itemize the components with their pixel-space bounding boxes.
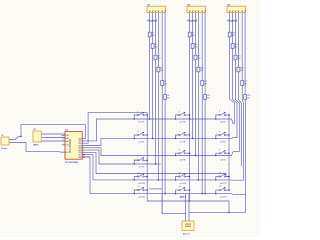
wire DS3 pin1 vertical: [230, 13, 235, 124]
junction S9 column line: [228, 152, 230, 154]
push button S1: [137, 111, 144, 123]
wire IC pin to keypad row 1: [86, 119, 232, 141]
junction S14 column line: [189, 189, 191, 191]
junction DS1 wire2: [152, 138, 154, 140]
junction S3 column line: [228, 114, 230, 116]
junction DS1 wire4: [158, 179, 160, 181]
push button S13: [137, 186, 145, 198]
junction S6 column line: [228, 134, 230, 136]
junction col2 chain: [189, 200, 191, 202]
junction S11 row line: [175, 179, 177, 181]
wire S3 left stub: [216, 115, 219, 119]
svg-text:330: 330: [198, 58, 201, 60]
push button S15: [219, 186, 227, 198]
svg-text:sw11TB: sw11TB: [179, 183, 186, 185]
svg-text:PIC16F628A: PIC16F628A: [69, 138, 72, 152]
junction DS1 wire1: [149, 118, 151, 120]
junction S6 row line: [215, 138, 217, 140]
wire S8 right stub: [185, 152, 189, 154]
junction node A: [20, 136, 22, 138]
svg-text:PIC16F628A: PIC16F628A: [65, 161, 78, 164]
svg-text:Display3: Display3: [227, 19, 238, 22]
junction S13 row line: [133, 193, 135, 195]
wire J1 bottom pin: [9, 143, 65, 153]
svg-text:1: 1: [137, 111, 138, 113]
resistor R8: [191, 44, 198, 49]
junction S9 row line: [215, 155, 217, 157]
push button S3: [219, 111, 226, 123]
svg-text:330: 330: [155, 46, 158, 48]
wire col3 junction to bus: [228, 201, 230, 212]
wire S13 left stub: [134, 190, 137, 194]
wire S6 left stub: [216, 135, 219, 138]
junction S10 column line: [146, 176, 148, 178]
wire S14 left stub: [176, 190, 179, 194]
svg-text:sw10TB: sw10TB: [138, 183, 146, 185]
svg-text:12: 12: [83, 151, 85, 153]
wire DS1 pin6 vertical: [164, 13, 166, 194]
junction S10 row line: [133, 179, 135, 181]
wire col2 drop to chain: [189, 190, 191, 201]
wire node A up-over to U1 right pin1: [21, 124, 85, 138]
svg-text:330: 330: [244, 83, 247, 85]
wire X1 pin3 to U1: [41, 140, 65, 142]
junction S4 column line: [146, 134, 148, 136]
resistor R16: [237, 67, 244, 72]
wire row2 jog to DS3 wire: [232, 137, 238, 140]
wire IC pin to keypad row 4: [86, 155, 232, 180]
svg-text:sw9TB: sw9TB: [220, 160, 227, 162]
wire S4 right stub: [144, 134, 147, 136]
resistor R14: [231, 44, 238, 49]
resistor R4: [157, 67, 164, 72]
wire S1 left stub: [134, 115, 137, 119]
svg-text:13: 13: [137, 186, 139, 188]
svg-text:330: 330: [164, 83, 167, 85]
wire S7 right stub: [144, 159, 147, 161]
svg-text:330: 330: [152, 35, 155, 37]
svg-text:2: 2: [63, 137, 64, 139]
push button S11: [179, 173, 187, 185]
junction S5 column line: [189, 134, 191, 136]
wire IC pin to keypad row 3: [86, 150, 161, 164]
resistor R11: [201, 81, 208, 86]
wire IC pin to keypad row 5: [86, 157, 232, 194]
junction S11 column line: [189, 176, 191, 178]
wire DS1 pin3 vertical: [155, 13, 157, 164]
wire S2 left stub: [176, 115, 179, 119]
wire DS2 pin4 vertical: [197, 13, 199, 180]
push button S2: [179, 111, 186, 123]
wire buzzer left pin up: [185, 194, 187, 214]
svg-text:330: 330: [238, 58, 241, 60]
svg-text:3: 3: [219, 111, 220, 113]
svg-text:11: 11: [179, 173, 181, 175]
junction S7 column line: [146, 160, 148, 162]
junction S5 row line: [175, 138, 177, 140]
svg-text:7: 7: [137, 156, 138, 158]
junction S7 row line: [133, 163, 135, 165]
wire S3 right stub: [226, 114, 229, 116]
wire S10 right stub: [144, 176, 147, 178]
svg-text:Power: Power: [1, 147, 7, 150]
wire S11 left stub: [176, 177, 179, 180]
junction S8 row line: [175, 155, 177, 157]
wire S12 left stub: [216, 177, 219, 180]
wire DS2 pin2 vertical: [192, 13, 194, 139]
wire S5 right stub: [185, 134, 189, 136]
push button S6: [219, 131, 226, 143]
svg-text:RB8: RB8: [78, 157, 81, 159]
wire keypad column 1 vertical: [146, 113, 148, 190]
svg-text:4: 4: [137, 131, 138, 133]
junction DS2 wire3: [195, 155, 197, 157]
wire DS3 pin6 vertical: [244, 13, 247, 195]
resistor R12: [204, 95, 211, 100]
svg-text:1: 1: [63, 134, 64, 136]
svg-text:10: 10: [137, 173, 139, 175]
wire S12 right stub: [226, 176, 229, 178]
wire DS3 pin4 vertical: [238, 13, 241, 166]
svg-text:330: 330: [235, 46, 238, 48]
wire IC pin to keypad column 3: [86, 152, 229, 176]
wire S9 left stub: [216, 153, 219, 155]
svg-text:2: 2: [179, 111, 180, 113]
label U1 red pin marks: [83, 154, 85, 158]
wire row1 jog to DS3 wire: [232, 119, 235, 123]
svg-text:sw13TB: sw13TB: [138, 197, 146, 199]
svg-text:10: 10: [83, 146, 85, 148]
wire row4 jog to DS3 wire: [232, 179, 244, 181]
svg-text:3: 3: [63, 140, 64, 142]
wire S11 right stub: [185, 176, 189, 178]
svg-text:2: 2: [38, 138, 39, 140]
resistor R6: [164, 95, 171, 100]
wire yellow stub row5: [133, 189, 140, 191]
wire U1 pin9 stub: [86, 156, 90, 158]
resistor R15: [234, 55, 241, 60]
svg-text:15: 15: [219, 186, 221, 188]
7-segment display DS1: [147, 6, 166, 12]
crystal X1: [33, 131, 41, 143]
svg-text:330: 330: [160, 70, 163, 72]
push button S4: [137, 131, 144, 143]
junction S1 row line: [133, 118, 135, 120]
svg-text:9: 9: [219, 149, 220, 151]
wire IC pin to keypad row3 upper: [86, 148, 240, 156]
junction DS2 wire4: [198, 179, 200, 181]
wire S4 left stub: [134, 135, 137, 138]
svg-text:330: 330: [247, 97, 250, 99]
push button S14: [179, 186, 187, 198]
push button S8: [179, 149, 186, 161]
svg-text:sw4TB: sw4TB: [138, 141, 145, 143]
wire DS1 pin5 vertical: [161, 13, 163, 214]
junction column 3 link: [228, 176, 230, 178]
svg-text:6: 6: [219, 131, 220, 133]
svg-text:330: 330: [200, 70, 203, 72]
wire keypad column 2 vertical: [189, 115, 191, 190]
junction bus right: [228, 212, 230, 214]
push button S12: [219, 173, 227, 185]
svg-text:330: 330: [204, 83, 207, 85]
wire S15 right stub: [226, 189, 229, 191]
svg-text:330: 330: [232, 35, 235, 37]
junction DS2 wire5: [201, 193, 203, 195]
junction DS2 wire1: [189, 118, 191, 120]
junction S14 row line: [175, 193, 177, 195]
wire bottom bus right to buzzer: [189, 194, 246, 221]
wire yellow stub row3: [133, 159, 140, 161]
wire DS2 pin6 vertical: [204, 13, 206, 194]
resistor R7: [188, 32, 195, 37]
junction S8 column line: [189, 152, 191, 154]
wire S5 left stub: [176, 135, 179, 138]
svg-text:4MHz: 4MHz: [33, 144, 38, 147]
svg-text:Buzzer: Buzzer: [183, 232, 190, 235]
junction S1 column line: [146, 114, 148, 116]
wire J1 top pin: [9, 136, 21, 139]
wire DS3 pin3 vertical: [236, 13, 240, 152]
svg-text:Display1: Display1: [147, 19, 158, 22]
7-segment display DS2: [187, 6, 206, 12]
resistor R5: [161, 81, 168, 86]
wire DS3 pin5 vertical: [242, 13, 243, 181]
junction S4 row line: [133, 138, 135, 140]
junction S3 row line: [215, 118, 217, 120]
wire DS2 pin3 vertical: [195, 13, 197, 156]
wire S13 right stub: [144, 189, 147, 191]
svg-text:330: 330: [158, 58, 161, 60]
wire DS2 pin5 vertical: [201, 13, 203, 194]
svg-text:330: 330: [240, 70, 243, 72]
svg-text:330: 330: [167, 97, 170, 99]
svg-text:sw12TB: sw12TB: [220, 183, 228, 185]
wire DS1 pin4 vertical: [157, 13, 159, 180]
junction S2 column line: [189, 114, 191, 116]
svg-text:sw7TB: sw7TB: [138, 167, 145, 169]
push button S10: [137, 173, 145, 185]
junction S12 row line: [215, 179, 217, 181]
svg-text:330: 330: [207, 97, 210, 99]
buzzer BZ1: [182, 221, 194, 231]
op-amp U1 microcontroller: [62, 132, 86, 160]
junction S15 column line: [228, 189, 230, 191]
resistor R17: [241, 81, 248, 86]
svg-text:12: 12: [219, 173, 221, 175]
svg-text:sw3TB: sw3TB: [220, 121, 227, 123]
junction S2 row line: [175, 118, 177, 120]
svg-text:14: 14: [179, 186, 181, 188]
svg-text:3: 3: [38, 141, 39, 143]
junction S12 column line: [228, 176, 230, 178]
resistor R3: [154, 55, 161, 60]
wire S8 left stub: [176, 153, 179, 155]
wire buzzer right pin up: [188, 194, 190, 213]
junction DS2 wire6: [204, 193, 206, 195]
wire row5 stub: [151, 188, 163, 190]
node dangling yellow end: [150, 188, 152, 189]
push button S9: [219, 149, 226, 161]
wire columns chain at y201: [147, 190, 229, 201]
wire S7 left stub: [134, 160, 137, 164]
svg-text:sw8TB: sw8TB: [179, 160, 186, 162]
svg-text:8: 8: [179, 149, 180, 151]
svg-text:sw1TB: sw1TB: [138, 121, 145, 123]
wire IC pin to keypad row 2: [86, 138, 232, 145]
wire S9 right stub: [226, 152, 229, 154]
wire DS1 pin2 vertical: [152, 13, 154, 139]
junction DS1 wire6: [164, 193, 166, 195]
7-segment display DS3: [227, 6, 246, 12]
svg-text:11: 11: [83, 149, 85, 151]
connector J1: [1, 137, 9, 145]
resistor R9: [194, 55, 201, 60]
resistor R13: [228, 32, 235, 37]
wire S15 left stub: [216, 190, 219, 194]
wire S10 left stub: [134, 177, 137, 180]
svg-text:sw2TB: sw2TB: [179, 121, 186, 123]
svg-text:4: 4: [63, 144, 64, 146]
wire X1 pin2 to U1: [41, 137, 65, 139]
svg-text:5: 5: [179, 131, 180, 133]
svg-text:sw15TB: sw15TB: [220, 197, 228, 199]
wire row5 jog to DS3 wire: [232, 193, 246, 196]
resistor R10: [197, 67, 204, 72]
wire DS3 pin2 vertical: [233, 13, 237, 138]
push button S5: [179, 131, 186, 143]
resistor R1: [148, 32, 155, 37]
wire X1 pin1 to U1: [41, 133, 65, 135]
resistor R2: [151, 44, 158, 49]
push button S7: [137, 156, 144, 168]
svg-text:RA2: RA2: [66, 134, 69, 137]
wire DS2 pin1 vertical: [189, 13, 191, 119]
svg-text:sw6TB: sw6TB: [220, 141, 227, 143]
wire DS1 pin1 vertical: [149, 13, 151, 119]
wire S14 right stub: [185, 189, 189, 191]
wire S1 right stub: [144, 114, 147, 116]
svg-text:sw5TB: sw5TB: [179, 141, 186, 143]
wire bottom bus left to buzzer: [162, 194, 185, 221]
wire IC pin to keypad column 1: [86, 113, 148, 144]
svg-text:330: 330: [195, 46, 198, 48]
svg-text:5: 5: [63, 151, 64, 153]
junction S15 row line: [215, 193, 217, 195]
svg-text:1: 1: [38, 134, 39, 136]
svg-text:330: 330: [192, 35, 195, 37]
svg-text:Display2: Display2: [187, 19, 198, 22]
junction DS2 wire2: [192, 138, 194, 140]
junction S13 column line: [146, 189, 148, 191]
wire S6 right stub: [226, 134, 229, 136]
wire keypad column 3 vertical: [228, 114, 230, 191]
resistor R18: [244, 95, 251, 100]
junction DS1 wire3: [155, 163, 157, 165]
wire S2 right stub: [185, 114, 189, 116]
